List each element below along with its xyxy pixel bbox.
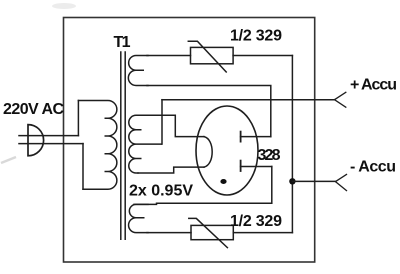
wire primary bus upper [77,101,79,136]
thermistor R1 diagonal [188,41,226,72]
transformer T1 secondary winding bottom (HV lower) [129,204,148,232]
thermistor R1 (1/2 329) body [191,47,234,63]
node minus junction dot [289,178,295,184]
wire filament upper lead [147,115,204,136]
terminal + Accu fork [335,92,346,107]
svg-text:328: 328 [258,147,281,164]
svg-text:T1: T1 [114,34,131,51]
pin anode A1 [241,136,271,138]
wire + Accu line [162,99,335,101]
transformer T1 primary winding [78,101,116,190]
terminal - Accu fork [336,174,347,190]
svg-text:1/2 329: 1/2 329 [230,213,282,230]
wire anode A2 to bottom winding [134,167,272,205]
transformer T1 secondary winding top (HV upper) [128,56,148,86]
pin anode A2 [241,166,272,168]
svg-text:1/2 329: 1/2 329 [230,27,282,44]
artifact streak [1,157,16,163]
svg-text:2x 0.95V: 2x 0.95V [129,183,193,200]
wire filament lower lead [138,167,204,173]
tube V1 anode plate A1 [240,132,242,142]
wire thermistor R2 to minus rail [233,232,292,234]
tube V1 gas dot [220,179,226,184]
wire primary bus lower [82,144,84,190]
thermistor R2 diagonal [189,218,228,247]
wire top winding lower lead to anode A1 [147,86,271,137]
tube V1 anode plate A2 [240,161,242,171]
wire thermistor R1 to node column [233,55,292,57]
transformer T1 secondary winding middle (filament, 2x 0.95V) [129,115,162,173]
artifact smudge [52,3,76,9]
svg-text:+ Accu: + Accu [350,76,397,93]
wire right column (minus rail) [291,56,293,233]
transformer T1 core [121,52,125,239]
wire center tap to + Accu riser [161,100,163,144]
wire - Accu line [292,180,335,182]
wire mains bottom [19,143,83,145]
plug P1 (220V mains plug) [28,125,44,156]
wire bottom winding to thermistor R2 [147,232,191,234]
svg-text:- Accu: - Accu [350,158,396,175]
wire top winding to thermistor [147,55,191,57]
border frame (enclosure box) [64,18,315,263]
svg-text:220V AC: 220V AC [3,101,64,118]
wire mains top [19,135,78,137]
thermistor R2 (1/2 329) body [191,225,233,239]
tube V1 envelope (328 rectifier bulb) [196,106,258,195]
tube V1 filament arc [204,137,212,168]
